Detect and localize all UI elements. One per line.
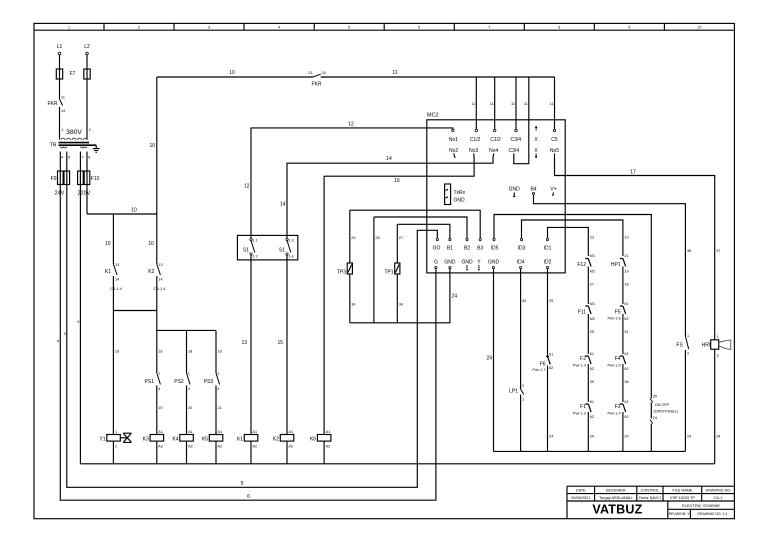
- controller MC2 box: [427, 120, 565, 273]
- svg-text:2: 2: [115, 445, 117, 449]
- svg-text:8: 8: [88, 156, 90, 160]
- svg-text:62: 62: [624, 367, 628, 371]
- svg-text:2: 2: [687, 352, 689, 356]
- svg-text:V+: V+: [550, 187, 556, 193]
- svg-text:GND: GND: [444, 260, 456, 266]
- svg-text:C3/4: C3/4: [509, 148, 520, 154]
- svg-text:ON OFF: ON OFF: [655, 403, 670, 407]
- svg-text:25: 25: [590, 330, 594, 334]
- svg-text:(OPSIYONEL): (OPSIYONEL): [654, 410, 679, 414]
- transformer TR primary winding arcs: [61, 138, 87, 140]
- svg-text:ID2: ID2: [544, 260, 552, 266]
- svg-text:ID1: ID1: [544, 246, 552, 252]
- pin C1/2 second: [494, 129, 496, 131]
- svg-text:1: 1: [62, 128, 64, 132]
- svg-text:11: 11: [511, 102, 515, 106]
- svg-text:CA-1.4: CA-1.4: [110, 287, 122, 291]
- svg-text:M1: M1: [590, 302, 595, 306]
- svg-text:13: 13: [115, 263, 119, 267]
- svg-text:4: 4: [278, 25, 280, 29]
- svg-text:TP3: TP3: [337, 270, 346, 276]
- svg-text:28: 28: [375, 236, 379, 240]
- svg-text:62: 62: [549, 366, 553, 370]
- svg-text:1: 1: [717, 335, 719, 339]
- svg-text:39: 39: [590, 380, 594, 384]
- svg-text:REVISION: 1: REVISION: 1: [669, 512, 690, 516]
- svg-text:10: 10: [105, 241, 111, 247]
- svg-text:61: 61: [624, 302, 628, 306]
- ruler ticks: [104, 23, 664, 30]
- svg-text:2: 2: [89, 128, 91, 132]
- svg-text:1: 1: [687, 334, 689, 338]
- svg-text:A2: A2: [188, 445, 193, 449]
- fuse F7a on L1: [56, 69, 62, 79]
- svg-text:F6: F6: [540, 362, 546, 368]
- fuse F9 (pair, 24V): [58, 171, 64, 185]
- svg-text:21: 21: [624, 254, 628, 258]
- svg-text:LP1: LP1: [509, 389, 518, 395]
- ruler strip bottom line: [34, 29, 734, 31]
- svg-text:Pwr-1.6: Pwr-1.6: [608, 317, 621, 321]
- svg-text:K2: K2: [273, 437, 279, 443]
- wire 17 from No5 to horn column: [555, 158, 715, 340]
- svg-text:14: 14: [115, 278, 119, 282]
- svg-text:14: 14: [61, 109, 65, 113]
- svg-text:A2: A2: [326, 445, 331, 449]
- svg-text:5: 5: [68, 156, 70, 160]
- svg-text:15: 15: [277, 340, 283, 346]
- svg-text:K1: K1: [105, 269, 111, 275]
- pin B3 from TP3: [479, 239, 481, 241]
- svg-text:No5: No5: [550, 148, 559, 154]
- pin GO with wire 5 link: [436, 239, 438, 241]
- svg-text:1: 1: [158, 372, 160, 376]
- svg-text:F2: F2: [580, 356, 586, 362]
- svg-text:14: 14: [280, 202, 286, 208]
- svg-text:A1: A1: [218, 430, 223, 434]
- wire L2 down: [86, 55, 88, 69]
- svg-text:9: 9: [628, 25, 630, 29]
- svg-text:11: 11: [61, 96, 65, 100]
- svg-text:11: 11: [550, 102, 554, 106]
- svg-text:19: 19: [624, 270, 628, 274]
- svg-text:2: 2: [717, 354, 719, 358]
- svg-text:6: 6: [57, 339, 59, 343]
- svg-text:62: 62: [590, 415, 594, 419]
- wire 16 from No3 to coil K6: [324, 158, 474, 435]
- svg-text:Y1: Y1: [99, 437, 105, 443]
- svg-text:Pwr-1.7: Pwr-1.7: [532, 368, 545, 372]
- svg-text:CONTROL: CONTROL: [641, 488, 660, 492]
- svg-text:21: 21: [308, 71, 312, 75]
- pin ID3 to HP1 column: [520, 239, 522, 241]
- svg-text:17: 17: [630, 170, 636, 176]
- svg-text:B3: B3: [477, 246, 483, 252]
- svg-text:GND: GND: [454, 198, 466, 204]
- svg-text:FKR: FKR: [312, 82, 322, 88]
- svg-text:F3: F3: [615, 404, 621, 410]
- svg-text:12: 12: [244, 184, 250, 190]
- svg-text:M1: M1: [590, 254, 595, 258]
- fuse F7b on L2: [84, 69, 90, 79]
- svg-text:61: 61: [549, 353, 553, 357]
- svg-text:K3: K3: [143, 437, 149, 443]
- svg-text:24: 24: [549, 435, 553, 439]
- svg-text:B2: B2: [464, 246, 470, 252]
- svg-text:1.4: 1.4: [288, 255, 293, 259]
- top rail wire 11 segment: [321, 76, 555, 78]
- svg-text:24: 24: [653, 416, 657, 420]
- pin C5: [553, 129, 555, 131]
- svg-text:A2: A2: [253, 445, 258, 449]
- svg-text:F7: F7: [70, 71, 76, 77]
- svg-text:24V: 24V: [55, 191, 65, 197]
- svg-text:4: 4: [188, 387, 190, 391]
- svg-text:L1: L1: [57, 44, 63, 50]
- wire 13 S1 to coil K1: [250, 255, 252, 435]
- svg-text:38: 38: [624, 380, 628, 384]
- svg-text:A2: A2: [218, 445, 223, 449]
- svg-text:DESIGNER: DESIGNER: [606, 488, 626, 492]
- svg-text:24: 24: [687, 435, 691, 439]
- svg-text:34: 34: [716, 435, 720, 439]
- svg-text:MC2: MC2: [427, 113, 439, 119]
- svg-text:A1: A1: [253, 430, 258, 434]
- svg-text:61: 61: [590, 352, 594, 356]
- svg-text:6: 6: [418, 25, 420, 29]
- fuse F10 (pair, 220V): [78, 171, 84, 185]
- svg-text:34: 34: [351, 303, 355, 307]
- svg-text:Turgay ARSLANALI: Turgay ARSLANALI: [599, 496, 632, 500]
- svg-text:29: 29: [549, 299, 553, 303]
- svg-text:6: 6: [247, 494, 250, 500]
- svg-text:3: 3: [208, 25, 210, 29]
- svg-text:PS2: PS2: [174, 379, 184, 385]
- svg-text:220V: 220V: [78, 191, 91, 197]
- transformer secondary winding arcs: [60, 147, 87, 148]
- svg-text:11: 11: [490, 102, 494, 106]
- svg-text:1: 1: [68, 25, 70, 29]
- svg-text:18: 18: [158, 350, 162, 354]
- svg-text:A2: A2: [289, 445, 294, 449]
- svg-text:FILE NAME: FILE NAME: [672, 488, 693, 492]
- svg-text:34: 34: [522, 299, 526, 303]
- wire: [86, 79, 88, 140]
- svg-text:9: 9: [77, 320, 79, 324]
- wire joining K1/K2 outputs: [113, 310, 156, 312]
- pin No1 top row: [452, 129, 454, 131]
- svg-text:GO: GO: [433, 246, 441, 252]
- svg-text:1: 1: [188, 372, 190, 376]
- svg-text:380V: 380V: [66, 129, 82, 136]
- test point TP3 between B3 and gnd: [349, 210, 351, 263]
- wire down to PS group: [156, 311, 158, 374]
- svg-text:14: 14: [386, 156, 392, 162]
- svg-text:HP1: HP1: [611, 262, 621, 268]
- top rail wire 10 segment: [157, 76, 313, 78]
- svg-text:1: 1: [522, 398, 524, 402]
- svg-text:DRAWING NO: 1.4: DRAWING NO: 1.4: [697, 512, 727, 516]
- wire 220V neutral down to bottom rail: [79, 185, 81, 464]
- svg-text:4: 4: [61, 156, 63, 160]
- svg-text:A1: A1: [188, 430, 193, 434]
- svg-text:F9: F9: [51, 176, 57, 182]
- svg-text:Pwr-1.3: Pwr-1.3: [573, 364, 586, 368]
- svg-text:PS1: PS1: [145, 379, 155, 385]
- svg-text:1.3: 1.3: [288, 239, 293, 243]
- svg-text:23: 23: [590, 236, 594, 240]
- svg-text:7: 7: [82, 156, 84, 160]
- svg-text:L2: L2: [84, 44, 90, 50]
- wire K2 branch down: [156, 214, 158, 264]
- svg-text:Pwr-1.5: Pwr-1.5: [608, 364, 621, 368]
- svg-text:11: 11: [392, 70, 397, 76]
- svg-text:S1: S1: [243, 248, 249, 254]
- svg-text:TR: TR: [50, 143, 57, 149]
- svg-text:M2: M2: [590, 317, 595, 321]
- drop to MC2 C3/4: [515, 77, 517, 129]
- svg-text:36: 36: [687, 249, 691, 253]
- svg-text:F10: F10: [91, 176, 100, 182]
- svg-text:10: 10: [131, 208, 137, 214]
- svg-text:16: 16: [394, 178, 400, 184]
- svg-text:M2: M2: [590, 270, 595, 274]
- pin C1/2: [475, 129, 477, 131]
- svg-text:C1/2: C1/2: [470, 137, 481, 143]
- svg-text:K1: K1: [237, 437, 243, 443]
- switch S1 contact 1.3/1.4: [286, 238, 288, 240]
- svg-text:13: 13: [241, 340, 247, 346]
- secondary wires down to fuses: [60, 152, 87, 172]
- svg-text:PS3: PS3: [204, 379, 214, 385]
- svg-text:No4: No4: [489, 148, 498, 154]
- svg-text:21: 21: [218, 406, 222, 410]
- svg-text:5: 5: [64, 332, 66, 336]
- svg-text:24: 24: [452, 294, 458, 300]
- svg-text:10: 10: [149, 143, 155, 149]
- ground rail 24: [494, 450, 686, 452]
- svg-text:FKR: FKR: [48, 101, 58, 107]
- wire PS header: [157, 330, 216, 373]
- svg-text:K2: K2: [148, 269, 154, 275]
- svg-text:18: 18: [218, 350, 222, 354]
- svg-text:A1: A1: [158, 430, 163, 434]
- title block: [567, 486, 734, 519]
- svg-text:C5: C5: [551, 137, 558, 143]
- svg-text:61: 61: [624, 400, 628, 404]
- svg-text:B1: B1: [447, 246, 453, 252]
- wire: [59, 107, 61, 140]
- svg-text:24: 24: [624, 435, 628, 439]
- pin ID1 to F12 column: [546, 239, 548, 241]
- switch S1 contact 1.1/1.2: [250, 238, 252, 240]
- contact FKR on top rail pins 21/24: [313, 74, 321, 77]
- svg-text:DRAWING NO: DRAWING NO: [706, 488, 731, 492]
- pin B2 from wire 28: [466, 239, 468, 241]
- svg-text:61: 61: [624, 352, 628, 356]
- svg-text:12: 12: [348, 121, 354, 127]
- svg-text:GND: GND: [461, 260, 473, 266]
- wire 220V hot down to node: [86, 185, 88, 215]
- svg-text:13: 13: [158, 263, 162, 267]
- svg-text:5: 5: [241, 481, 244, 487]
- svg-text:C1/2: C1/2: [490, 137, 501, 143]
- svg-text:ID4: ID4: [517, 260, 525, 266]
- svg-text:62: 62: [624, 317, 628, 321]
- svg-text:VATBUZ: VATBUZ: [592, 503, 642, 517]
- svg-text:1: 1: [115, 430, 117, 434]
- svg-text:4: 4: [217, 387, 219, 391]
- svg-text:F5: F5: [615, 310, 621, 316]
- svg-text:31: 31: [624, 330, 628, 334]
- svg-text:TxRx: TxRx: [454, 190, 466, 196]
- svg-text:No2: No2: [449, 148, 458, 154]
- pin C3/4: [515, 129, 517, 131]
- svg-text:B4: B4: [530, 187, 536, 193]
- connector TxRx/GND: [445, 184, 451, 205]
- svg-text:8: 8: [558, 25, 560, 29]
- svg-text:24: 24: [486, 356, 492, 362]
- svg-text:27: 27: [590, 283, 594, 287]
- drop to MC2 C1/2 no.1: [475, 77, 477, 129]
- svg-text:A2: A2: [158, 445, 163, 449]
- svg-text:62: 62: [590, 367, 594, 371]
- svg-text:1.1: 1.1: [252, 239, 257, 243]
- svg-text:G: G: [434, 260, 438, 266]
- svg-text:K5: K5: [202, 437, 208, 443]
- svg-text:11: 11: [524, 102, 528, 106]
- svg-text:62: 62: [624, 415, 628, 419]
- switch box S1: [237, 235, 297, 260]
- svg-text:F12: F12: [577, 262, 586, 268]
- svg-text:S1: S1: [279, 248, 285, 254]
- svg-text:1: 1: [217, 372, 219, 376]
- svg-text:F11: F11: [578, 310, 586, 316]
- wire: [59, 79, 61, 99]
- svg-text:61: 61: [590, 400, 594, 404]
- svg-text:ELECTRIC SCHEME: ELECTRIC SCHEME: [682, 503, 720, 508]
- transformer TR core bars: [59, 142, 90, 144]
- svg-text:GND: GND: [509, 187, 521, 193]
- wire 12 from No1 to S1 1.1: [251, 128, 453, 238]
- neutral bottom rail: [80, 463, 714, 465]
- svg-text:GND: GND: [488, 260, 500, 266]
- wire 6 : left 24V down and right to MC2 G: [60, 185, 436, 501]
- svg-text:2: 2: [138, 25, 140, 29]
- svg-text:C3/4: C3/4: [511, 137, 522, 143]
- svg-text:4: 4: [158, 387, 160, 391]
- svg-text:No1: No1: [449, 137, 458, 143]
- pin X with up arrow: [535, 127, 537, 131]
- svg-text:F4: F4: [615, 356, 621, 362]
- pin ID5 to ON/OFF column: [493, 239, 495, 241]
- svg-text:24: 24: [590, 435, 594, 439]
- svg-text:Pwr-1.4: Pwr-1.4: [608, 412, 621, 416]
- svg-text:18: 18: [624, 283, 628, 287]
- svg-text:34: 34: [399, 303, 403, 307]
- svg-text:FS: FS: [676, 343, 683, 349]
- svg-text:18: 18: [188, 350, 192, 354]
- svg-text:CA-1.4: CA-1.4: [153, 287, 165, 291]
- svg-text:10: 10: [229, 70, 235, 76]
- wire 28 B2 down to gnd rail: [373, 217, 375, 323]
- svg-text:DATE: DATE: [576, 488, 586, 492]
- svg-text:A1: A1: [289, 430, 294, 434]
- svg-text:24: 24: [322, 71, 326, 75]
- svg-text:F1: F1: [580, 404, 586, 410]
- wire 15 S1 to coil K2: [286, 255, 288, 435]
- svg-text:35: 35: [653, 395, 657, 399]
- svg-text:No3: No3: [469, 148, 478, 154]
- svg-text:20: 20: [188, 406, 192, 410]
- svg-text:TP1: TP1: [384, 270, 393, 276]
- ground at transformer shield: [93, 145, 100, 152]
- svg-text:ID5: ID5: [491, 246, 499, 252]
- svg-text:7: 7: [488, 25, 490, 29]
- wire 5 : right 24V down and right then up to GO: [67, 185, 438, 488]
- wire 10 : 220V hot horizontal to riser: [87, 213, 157, 215]
- svg-text:Pwr-1.2: Pwr-1.2: [573, 412, 586, 416]
- svg-text:10: 10: [697, 25, 701, 29]
- svg-text:K6: K6: [310, 437, 316, 443]
- svg-text:18: 18: [115, 350, 119, 354]
- drop to MC2 C3/4 row2 via jog: [514, 77, 529, 164]
- svg-text:09/06/2021: 09/06/2021: [571, 496, 590, 500]
- svg-text:27: 27: [399, 236, 403, 240]
- wire L1 down: [59, 55, 61, 69]
- svg-text:37: 37: [716, 249, 720, 253]
- pin B1 from TP1: [449, 239, 451, 241]
- wire 14 from No4 to S1 1.3: [287, 158, 493, 238]
- svg-text:Deniz ŞAVCI: Deniz ŞAVCI: [639, 496, 661, 500]
- svg-text:1.2: 1.2: [252, 255, 257, 259]
- wire riser to top rail: [156, 77, 158, 214]
- svg-text:11: 11: [471, 102, 475, 106]
- svg-text:VSP 16203 TP: VSP 16203 TP: [670, 496, 695, 500]
- svg-text:CA-1: CA-1: [714, 496, 723, 500]
- svg-text:2: 2: [522, 384, 524, 388]
- wire K1 branch down: [112, 214, 114, 264]
- svg-text:10: 10: [624, 236, 628, 240]
- drop to MC2 C1/2 no.2: [494, 77, 496, 129]
- svg-text:29: 29: [351, 236, 355, 240]
- drop to MC2 C5: [554, 77, 556, 129]
- svg-text:10: 10: [148, 241, 154, 247]
- svg-text:ID3: ID3: [518, 246, 526, 252]
- svg-text:14: 14: [158, 278, 162, 282]
- svg-text:19: 19: [158, 406, 162, 410]
- svg-text:K4: K4: [172, 437, 178, 443]
- test point TP1 between B1 and gnd: [396, 224, 398, 263]
- wire down to Y1: [112, 311, 114, 435]
- svg-text:5: 5: [348, 25, 350, 29]
- svg-text:A1: A1: [326, 430, 331, 434]
